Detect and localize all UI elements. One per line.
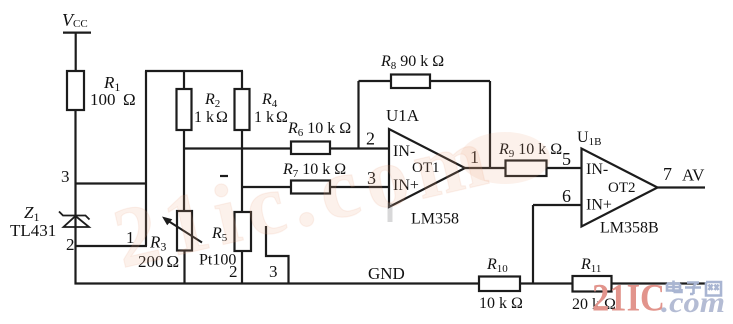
svg-text:R4: R4: [261, 91, 278, 110]
svg-text:2: 2: [66, 235, 75, 254]
svg-text:1 kΩ: 1 kΩ: [254, 109, 288, 126]
svg-text:6: 6: [562, 186, 571, 206]
svg-text:21IC: 21IC: [592, 277, 665, 320]
svg-text:100Ω: 100Ω: [90, 90, 136, 109]
svg-text:R11: R11: [580, 256, 601, 275]
svg-text:AV: AV: [682, 166, 705, 185]
svg-text:3: 3: [61, 167, 70, 186]
svg-text:5: 5: [562, 149, 571, 169]
svg-text:OT2: OT2: [608, 180, 636, 196]
svg-text:GND: GND: [368, 264, 405, 283]
svg-text:R6 10 k Ω: R6 10 k Ω: [287, 120, 351, 139]
svg-text:R8 90 k Ω: R8 90 k Ω: [380, 53, 444, 72]
svg-text:7: 7: [663, 164, 672, 184]
svg-text:IN+: IN+: [586, 197, 612, 214]
svg-text:R10: R10: [486, 256, 508, 275]
svg-text:2: 2: [229, 262, 238, 281]
svg-text:3: 3: [269, 262, 278, 281]
svg-text:TL431: TL431: [10, 221, 56, 240]
svg-text:10 k Ω: 10 k Ω: [479, 295, 523, 312]
svg-text:U1B: U1B: [577, 129, 601, 148]
svg-text:R2: R2: [204, 91, 220, 110]
svg-text:VCC: VCC: [62, 10, 88, 30]
svg-text:1 kΩ: 1 kΩ: [194, 109, 228, 126]
svg-text:LM358B: LM358B: [600, 220, 659, 237]
svg-text:.com: .com: [661, 286, 725, 319]
svg-text:IN-: IN-: [586, 161, 608, 178]
